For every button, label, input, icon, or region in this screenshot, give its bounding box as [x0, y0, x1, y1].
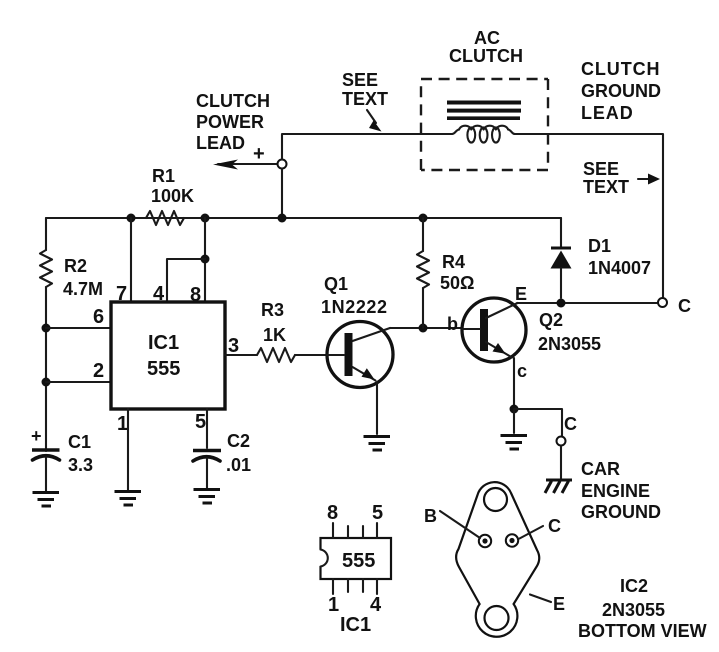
- svg-text:GROUND: GROUND: [581, 81, 661, 101]
- svg-text:IC1: IC1: [340, 614, 371, 636]
- svg-text:2: 2: [93, 360, 104, 382]
- wire pin 6: [46, 327, 111, 329]
- node junction R1 left / pin7: [127, 214, 136, 223]
- node junction pin2 left: [42, 378, 51, 387]
- ground C2: [194, 490, 221, 504]
- inductor clutch coil: [452, 126, 515, 143]
- svg-text:4: 4: [370, 594, 382, 616]
- svg-text:555: 555: [342, 550, 375, 572]
- op-amp IC1 555 box: [111, 302, 225, 409]
- svg-text:LEAD: LEAD: [581, 103, 634, 123]
- ground Q2 collector: [501, 436, 528, 450]
- wire power lead riser: [282, 134, 452, 160]
- node junction Q2 collector: [510, 405, 519, 414]
- wire Q1 emitter down: [376, 382, 378, 434]
- svg-text:CLUTCH: CLUTCH: [581, 59, 660, 79]
- transistor Q2: [462, 298, 526, 362]
- node junction R1 right / pin8: [201, 214, 210, 223]
- svg-text:C: C: [678, 296, 691, 316]
- transistor Q1: [327, 322, 393, 388]
- see text right arrow: [638, 178, 650, 180]
- capacitor C2: [193, 451, 221, 489]
- TO-3 lead line C: [520, 526, 544, 539]
- svg-text:CAR: CAR: [581, 459, 620, 479]
- wire Q2 emitter to terminal: [517, 302, 657, 304]
- node junction pin4 jog: [201, 255, 210, 264]
- svg-text:1K: 1K: [263, 325, 286, 345]
- svg-text:3.3: 3.3: [68, 455, 93, 475]
- wire R3 to Q1 base: [295, 354, 344, 356]
- wire power lead down to rail: [281, 169, 283, 219]
- TO-3 lead line B: [440, 511, 480, 538]
- wire terminal to chassis ground: [560, 446, 562, 479]
- node junction pin6 left: [42, 324, 51, 333]
- AC clutch dashed box: [421, 79, 548, 170]
- svg-text:7: 7: [116, 283, 127, 305]
- see text left arrow: [367, 110, 376, 123]
- svg-text:Q1: Q1: [324, 274, 348, 294]
- inductor clutch coil core bars: [447, 101, 521, 121]
- TO-3 mounting hole bottom: [485, 606, 509, 630]
- wire pin 7: [130, 218, 132, 302]
- svg-text:E: E: [515, 284, 527, 304]
- capacitor C1: [31, 426, 60, 491]
- wire Q1 collector to Q2 base: [390, 327, 480, 329]
- wire pin 1 down: [127, 409, 129, 490]
- ground pin1: [115, 492, 142, 506]
- node junction R4 top: [419, 214, 428, 223]
- svg-text:+: +: [253, 143, 265, 165]
- wire left branch down from rail to R2: [45, 218, 47, 250]
- wire coil to right corner: [515, 134, 663, 298]
- svg-text:IC2: IC2: [620, 576, 648, 596]
- svg-text:1N2222: 1N2222: [321, 297, 388, 317]
- wire Q2 collector down: [513, 358, 515, 409]
- svg-text:BOTTOM VIEW: BOTTOM VIEW: [578, 621, 707, 641]
- TO-3 pin C: [506, 534, 518, 546]
- svg-text:TEXT: TEXT: [342, 89, 388, 109]
- svg-text:POWER: POWER: [196, 112, 264, 132]
- svg-text:E: E: [553, 594, 565, 614]
- svg-text:50Ω: 50Ω: [440, 273, 474, 293]
- svg-text:2N3055: 2N3055: [602, 600, 665, 620]
- wire main positive rail: [46, 217, 561, 219]
- node C terminal open circle right: [658, 298, 667, 307]
- node junction D1 bottom: [557, 299, 566, 308]
- wire junction to C terminal: [514, 409, 562, 436]
- svg-text:4: 4: [153, 283, 165, 305]
- wire pin 4 jog: [167, 259, 205, 302]
- svg-text:C: C: [564, 414, 577, 434]
- node C terminal open circle lower: [557, 437, 566, 446]
- node power lead open circle: [278, 160, 287, 169]
- wire R4 top: [422, 218, 424, 251]
- TO-3 lead line E: [530, 595, 551, 603]
- diode D1: [551, 218, 572, 298]
- resistor R4: [417, 251, 429, 288]
- svg-text:CLUTCH: CLUTCH: [196, 91, 270, 111]
- ground Q1 emitter: [364, 437, 391, 451]
- svg-text:CLUTCH: CLUTCH: [449, 46, 523, 66]
- IC1 DIP package: [318, 538, 391, 579]
- ground chassis car engine: [545, 480, 572, 493]
- svg-text:R4: R4: [442, 252, 465, 272]
- svg-text:5: 5: [195, 411, 206, 433]
- node junction power lead rail: [278, 214, 287, 223]
- svg-text:2N3055: 2N3055: [538, 334, 601, 354]
- svg-text:555: 555: [147, 358, 180, 380]
- DIP bottom pins: [333, 579, 377, 594]
- svg-text:100K: 100K: [151, 186, 194, 206]
- svg-text:4.7M: 4.7M: [63, 279, 103, 299]
- svg-text:3: 3: [228, 335, 239, 357]
- wire pin 8: [204, 218, 206, 302]
- svg-text:1: 1: [117, 413, 128, 435]
- svg-text:1: 1: [328, 594, 339, 616]
- resistor R1: [146, 211, 184, 225]
- TO-3 mounting hole top: [484, 488, 507, 511]
- svg-text:LEAD: LEAD: [196, 133, 245, 153]
- TO-3 pin B: [479, 535, 491, 547]
- svg-text:1N4007: 1N4007: [588, 258, 651, 278]
- svg-text:8: 8: [190, 284, 201, 306]
- wire pin 2: [46, 381, 111, 383]
- wire clutch power lead: [218, 163, 277, 165]
- svg-text:SEE: SEE: [342, 70, 378, 90]
- transistor IC2 TO-3 outline: [456, 482, 539, 637]
- svg-text:c: c: [517, 361, 527, 381]
- DIP top pins: [333, 523, 377, 538]
- node junction R4 bottom: [419, 324, 428, 333]
- svg-text:R1: R1: [152, 166, 175, 186]
- svg-text:R3: R3: [261, 300, 284, 320]
- svg-text:+: +: [31, 426, 42, 446]
- svg-text:C2: C2: [227, 431, 250, 451]
- svg-text:5: 5: [372, 502, 383, 524]
- ground C1: [33, 493, 60, 507]
- svg-text:AC: AC: [474, 28, 500, 48]
- svg-text:6: 6: [93, 306, 104, 328]
- svg-text:Q2: Q2: [539, 310, 563, 330]
- resistor R3: [257, 348, 295, 362]
- clutch power lead arrowhead: [213, 160, 238, 170]
- svg-text:IC1: IC1: [148, 332, 179, 354]
- svg-text:b: b: [447, 314, 458, 334]
- svg-text:ENGINE: ENGINE: [581, 481, 650, 501]
- resistor R2: [40, 250, 52, 287]
- svg-text:GROUND: GROUND: [581, 502, 661, 522]
- svg-text:C: C: [548, 516, 561, 536]
- svg-text:8: 8: [327, 502, 338, 524]
- svg-text:C1: C1: [68, 432, 91, 452]
- svg-text:R2: R2: [64, 256, 87, 276]
- svg-text:B: B: [424, 506, 437, 526]
- wire R2 bottom down to C1: [45, 287, 47, 451]
- wire pin 5 down: [206, 409, 208, 448]
- wire junction to ground: [513, 409, 515, 433]
- wire R4 bottom: [422, 288, 424, 328]
- svg-text:SEE: SEE: [583, 159, 619, 179]
- svg-text:TEXT: TEXT: [583, 177, 629, 197]
- svg-text:.01: .01: [226, 455, 251, 475]
- svg-text:D1: D1: [588, 236, 611, 256]
- wire pin 3 to R3: [225, 354, 257, 356]
